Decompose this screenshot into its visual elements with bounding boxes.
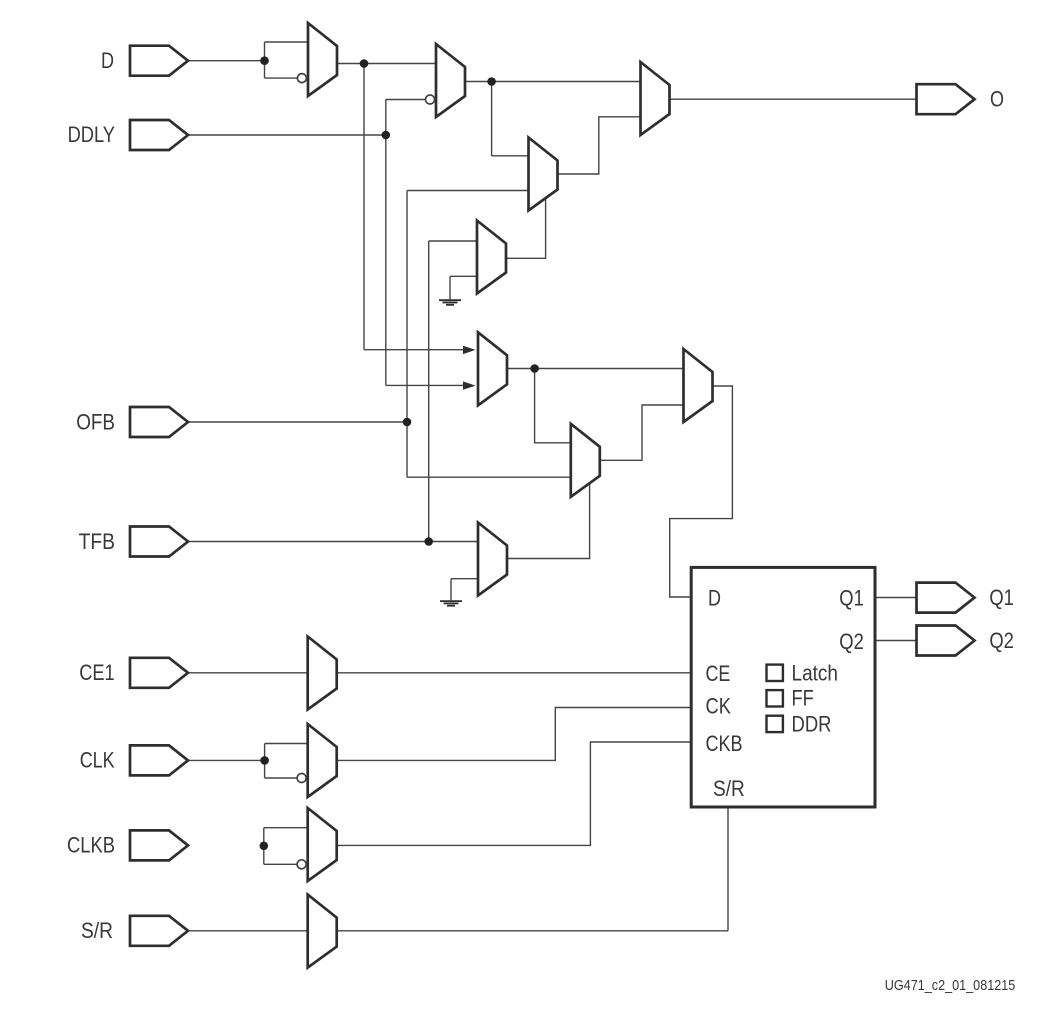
svg-text:UG471_c2_01_081215: UG471_c2_01_081215 xyxy=(885,978,1016,994)
svg-text:O: O xyxy=(990,86,1004,111)
svg-text:Latch: Latch xyxy=(792,661,839,686)
svg-text:D: D xyxy=(708,586,721,611)
svg-text:CE: CE xyxy=(706,661,731,686)
svg-text:DDLY: DDLY xyxy=(68,122,116,147)
svg-text:Q2: Q2 xyxy=(839,629,864,654)
svg-text:CE1: CE1 xyxy=(79,660,115,685)
svg-text:Q1: Q1 xyxy=(839,586,864,611)
svg-text:DDR: DDR xyxy=(792,711,832,736)
svg-text:CLKB: CLKB xyxy=(67,833,115,858)
svg-text:OFB: OFB xyxy=(76,409,115,434)
svg-text:Q1: Q1 xyxy=(989,585,1014,610)
svg-text:CK: CK xyxy=(706,694,732,719)
svg-text:TFB: TFB xyxy=(79,529,115,554)
svg-text:S/R: S/R xyxy=(713,776,745,801)
svg-text:FF: FF xyxy=(792,686,814,711)
svg-text:CKB: CKB xyxy=(706,731,743,756)
svg-text:S/R: S/R xyxy=(81,918,113,943)
svg-text:CLK: CLK xyxy=(80,748,115,773)
svg-text:Q2: Q2 xyxy=(989,628,1014,653)
svg-text:D: D xyxy=(101,48,114,73)
